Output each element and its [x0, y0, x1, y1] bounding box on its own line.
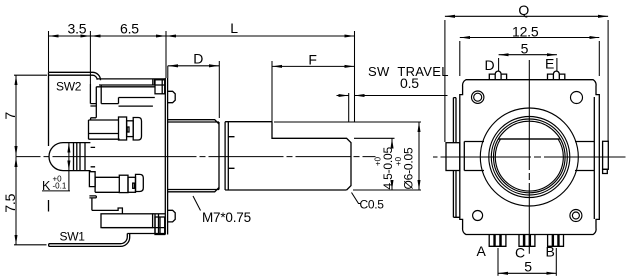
svg-text:7.5: 7.5: [2, 193, 18, 212]
svg-text:A: A: [477, 243, 487, 259]
svg-text:M7*0.75: M7*0.75: [202, 210, 251, 225]
svg-text:12.5: 12.5: [512, 24, 539, 40]
svg-text:C: C: [515, 244, 525, 260]
svg-text:+0: +0: [394, 156, 403, 166]
svg-text:D: D: [485, 57, 495, 73]
svg-text:SW1: SW1: [60, 230, 86, 244]
svg-text:5: 5: [521, 41, 529, 57]
svg-text:+0: +0: [374, 156, 383, 166]
svg-text:K: K: [42, 179, 51, 193]
svg-text:-0.1: -0.1: [53, 182, 67, 191]
svg-text:F: F: [308, 52, 316, 68]
svg-text:Q: Q: [518, 2, 529, 18]
svg-text:5: 5: [524, 258, 532, 274]
svg-text:D: D: [193, 51, 203, 67]
svg-text:6.5: 6.5: [120, 21, 139, 37]
svg-text:E: E: [545, 55, 554, 71]
svg-text:3.5: 3.5: [68, 21, 87, 37]
svg-text:Ø6-0.05: Ø6-0.05: [402, 147, 416, 189]
svg-text:C0.5: C0.5: [360, 198, 385, 212]
svg-text:L: L: [230, 20, 238, 36]
svg-text:SW2: SW2: [56, 80, 82, 94]
svg-text:SW TRAVEL: SW TRAVEL: [368, 64, 449, 79]
svg-text:4.5-0.05: 4.5-0.05: [381, 147, 395, 190]
svg-text:B: B: [546, 244, 555, 260]
svg-text:7: 7: [2, 112, 18, 120]
